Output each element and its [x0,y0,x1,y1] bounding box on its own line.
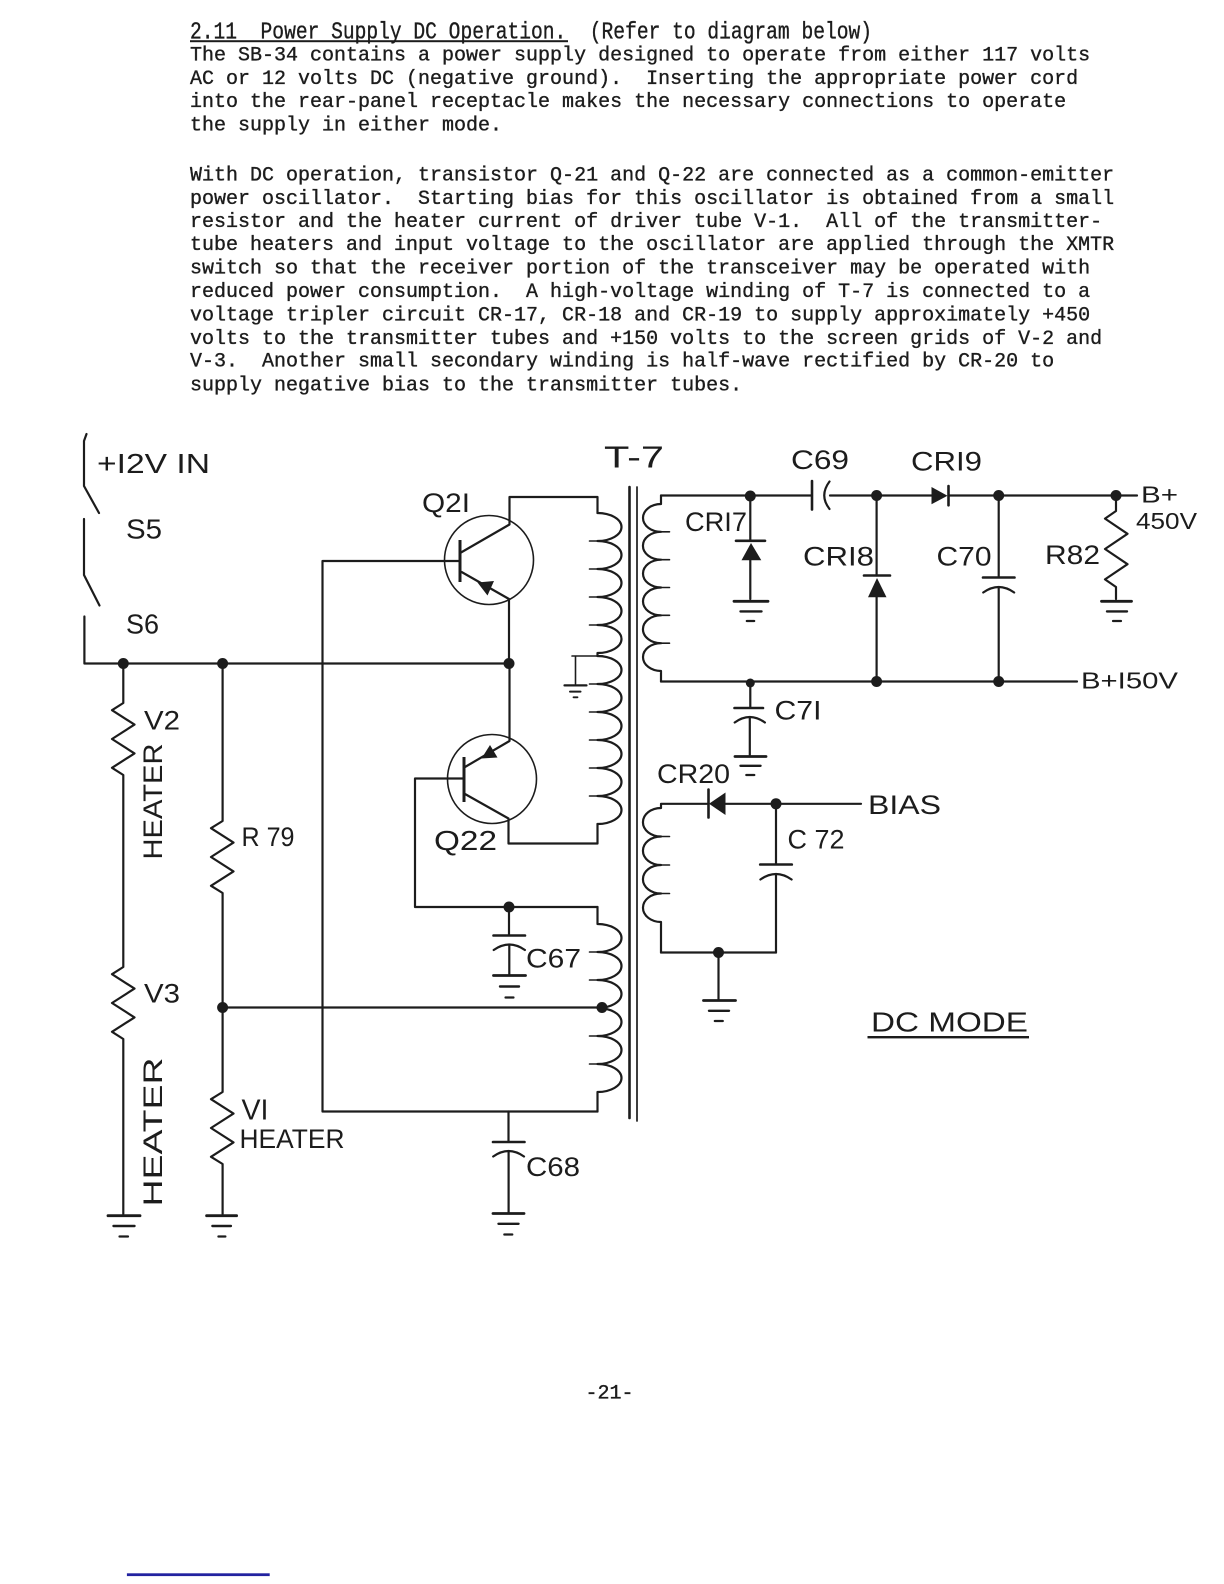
svg-text:C 72: C 72 [788,825,845,855]
svg-text:R 79: R 79 [242,822,295,852]
svg-text:HEATER: HEATER [138,744,168,860]
svg-text:voltage tripler circuit CR-17,: voltage tripler circuit CR-17, CR-18 and… [190,304,1090,327]
svg-text:-21-: -21- [586,1383,634,1406]
svg-text:B+: B+ [1141,482,1178,508]
svg-text:R82: R82 [1045,540,1100,570]
svg-text:CRI9: CRI9 [911,447,982,477]
svg-text:into the rear-panel receptacle: into the rear-panel receptacle makes the… [190,91,1066,114]
svg-text:C67: C67 [526,944,581,974]
svg-text:BIAS: BIAS [868,790,941,820]
svg-text:supply negative bias to the tr: supply negative bias to the transmitter … [190,375,742,398]
svg-text:reduced power consumption. A: reduced power consumption. A high-voltag… [190,281,1090,304]
svg-text:2.11 Power Supply DC Operatio: 2.11 Power Supply DC Operation. (Refer t… [190,19,872,46]
svg-text:switch so that the receiver po: switch so that the receiver portion of t… [190,257,1090,280]
svg-text:The SB-34 contains a power sup: The SB-34 contains a power supply design… [190,45,1090,68]
svg-text:the supply in either mode.: the supply in either mode. [190,114,502,137]
svg-text:V2: V2 [144,706,180,736]
svg-text:V3: V3 [144,979,180,1009]
svg-text:HEATER: HEATER [138,1058,168,1207]
svg-text:resistor and the heater curren: resistor and the heater current of drive… [190,211,1102,234]
svg-text:+I2V IN: +I2V IN [97,448,210,479]
svg-text:Q2I: Q2I [422,488,470,518]
svg-text:C69: C69 [791,445,849,475]
svg-text:V-3. Another small secondary: V-3. Another small secondary winding is … [190,351,1054,374]
svg-text:VI: VI [242,1095,269,1127]
svg-text:B+I50V: B+I50V [1081,668,1179,694]
svg-text:450V: 450V [1136,508,1198,534]
svg-text:With DC operation, transistor: With DC operation, transistor Q-21 and Q… [190,164,1114,187]
svg-text:CRI8: CRI8 [803,542,874,572]
svg-text:CRI7: CRI7 [685,507,747,537]
svg-text:HEATER: HEATER [240,1124,345,1154]
svg-text:tube heaters and input voltage: tube heaters and input voltage to the os… [190,234,1114,257]
svg-text:AC or 12 volts DC (negative gr: AC or 12 volts DC (negative ground). Ins… [190,68,1078,91]
svg-text:C68: C68 [526,1152,580,1182]
svg-text:Q22: Q22 [434,825,497,856]
svg-text:C7I: C7I [775,696,822,726]
svg-text:DC MODE: DC MODE [871,1007,1028,1038]
svg-text:C70: C70 [937,542,992,572]
svg-text:power oscillator. Starting bi: power oscillator. Starting bias for this… [190,188,1114,211]
svg-text:S6: S6 [126,609,159,640]
svg-text:T-7: T-7 [604,440,664,475]
svg-text:S5: S5 [126,514,162,545]
svg-text:CR20: CR20 [657,759,730,789]
svg-text:volts to the transmitter tubes: volts to the transmitter tubes and +150 … [190,328,1102,351]
